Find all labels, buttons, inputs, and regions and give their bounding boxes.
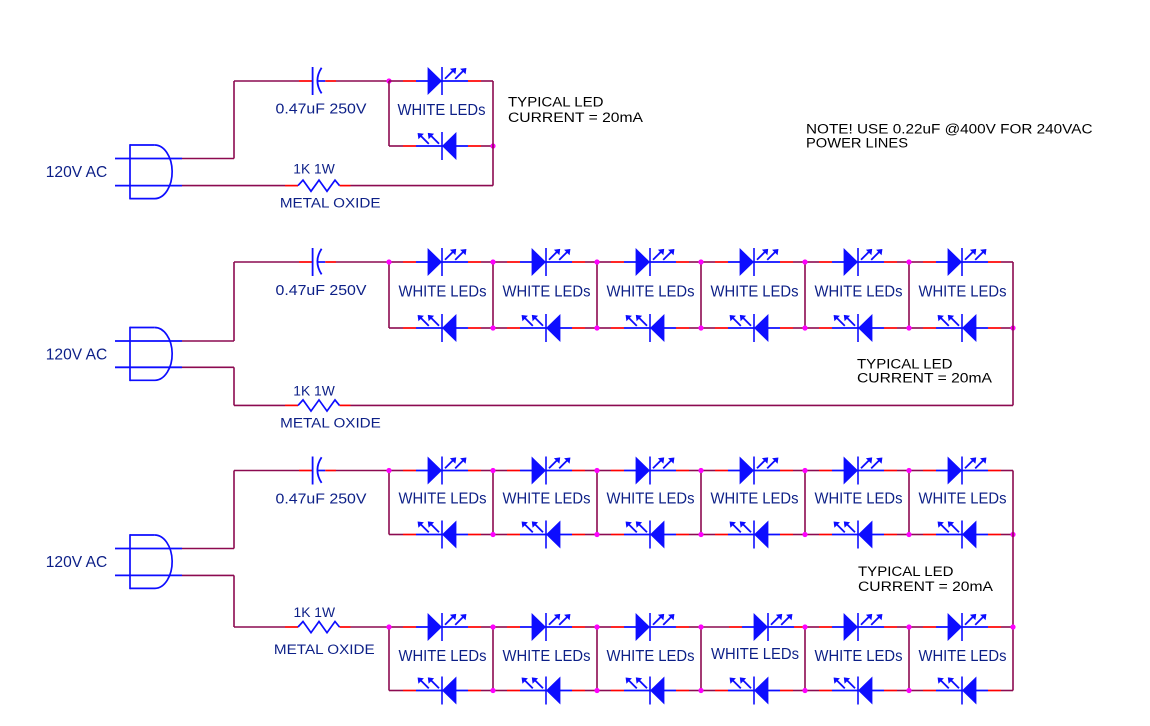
junction c2 bottom (1013,328) bbox=[1010, 325, 1015, 330]
svg-text:WHITE LEDs: WHITE LEDs bbox=[607, 283, 695, 300]
wire plug3 top prong bbox=[182, 548, 234, 550]
wire c3 string2 top rail cell1 right bbox=[481, 626, 493, 628]
junction c3s2 top (701,627) bbox=[698, 624, 703, 629]
wire vertical up bbox=[233, 262, 235, 341]
wire c3 string2 cell4 left edge bbox=[700, 627, 702, 691]
LED string2 bottom D4 bbox=[715, 314, 793, 342]
wire plug1 top prong to corner bbox=[182, 158, 234, 160]
svg-text:POWER LINES: POWER LINES bbox=[806, 136, 908, 151]
wire resistor to string 2 bbox=[351, 626, 390, 628]
wire capacitor to string 1 bbox=[336, 470, 389, 472]
wire c3 string1 top rail cell4 left bbox=[701, 470, 715, 472]
svg-text:120V AC: 120V AC bbox=[46, 554, 108, 571]
junction c3s2 bottom (909,690.5) bbox=[906, 688, 911, 693]
wire c2 top rail cell2 left bbox=[493, 261, 507, 263]
svg-text:TYPICAL LED: TYPICAL LED bbox=[857, 356, 953, 371]
LED string3b bottom D2 bbox=[507, 677, 585, 705]
wire vertical down bbox=[233, 367, 235, 405]
svg-text:WHITE LEDs: WHITE LEDs bbox=[399, 491, 487, 508]
wire c3 string2 top rail cell5 right bbox=[897, 626, 909, 628]
wire c2 bottom rail cell4 right bbox=[793, 327, 805, 329]
wire c3 string1 top rail cell1 right bbox=[481, 470, 493, 472]
junction c2 bottom (805,328) bbox=[802, 325, 807, 330]
wire c2 top rail cell4 right bbox=[793, 261, 805, 263]
junction c3s1 top (493,470.5) bbox=[490, 468, 495, 473]
wire to capacitor C2a bbox=[234, 261, 299, 263]
wire c3 string1 bottom rail cell1 right bbox=[481, 534, 493, 536]
junction c2 bottom (597,328) bbox=[594, 325, 599, 330]
AC plug P1 (120V AC) bbox=[115, 144, 182, 199]
junction (493,146) bbox=[490, 143, 495, 148]
wire c2 top rail cell6 right bbox=[1001, 261, 1013, 263]
wire c2 cell3 left edge bbox=[596, 262, 598, 328]
wire c3 string2 bottom rail cell5 right bbox=[897, 690, 909, 692]
junction c3s1 bottom (701,534.5) bbox=[698, 532, 703, 537]
wire c2 bottom rail cell1 right bbox=[481, 327, 493, 329]
wire c3 string2 bottom rail cell6 left bbox=[909, 690, 923, 692]
wire cell left edge bbox=[388, 81, 390, 146]
LED string2 top D6 bbox=[923, 248, 1001, 276]
wire c2 cell6 left edge bbox=[908, 262, 910, 328]
LED string3a top D4 bbox=[715, 457, 793, 485]
wire to resistor R2 bbox=[234, 404, 285, 406]
svg-text:WHITE LEDs: WHITE LEDs bbox=[815, 491, 903, 508]
svg-text:WHITE LEDs: WHITE LEDs bbox=[919, 283, 1007, 300]
junction c3s1 top (909,470.5) bbox=[906, 468, 911, 473]
wire c3 string1 bottom rail cell1 left bbox=[389, 534, 403, 536]
LED string3b top D3 bbox=[611, 613, 689, 641]
wire c3 string1 cell5 left edge bbox=[804, 471, 806, 535]
wire c1 bottom rail left bbox=[389, 145, 403, 147]
wire c3 string2 bottom rail cell2 left bbox=[493, 690, 507, 692]
wire vertical up to cap rail bbox=[233, 81, 235, 159]
svg-text:NOTE! USE 0.22uF @400V FOR 240: NOTE! USE 0.22uF @400V FOR 240VAC bbox=[806, 122, 1093, 137]
wire c3 string2 cell1 left edge bbox=[388, 627, 390, 691]
LED string3b top D4 bbox=[729, 613, 807, 641]
wire c3 string1 cell1 left edge bbox=[388, 471, 390, 535]
junction c2 top (493,262) bbox=[490, 259, 495, 264]
LED string2 bottom D1 bbox=[403, 314, 481, 342]
LED string3a top D5 bbox=[819, 457, 897, 485]
LED D2 (white, left) bbox=[403, 132, 481, 160]
wire c3 string2 top rail cell6 left bbox=[909, 626, 923, 628]
wire c3 string2 top rail cell4 right bbox=[805, 626, 807, 628]
wire c1 bottom rail right bbox=[481, 145, 493, 147]
wire c3 string1 top rail cell2 right bbox=[585, 470, 597, 472]
AC plug P3 (120V AC) bbox=[115, 534, 182, 589]
wire c3 string2 top rail cell6 right bbox=[1001, 626, 1013, 628]
svg-text:METAL OXIDE: METAL OXIDE bbox=[280, 415, 381, 431]
wire c2 top rail cell5 left bbox=[805, 261, 819, 263]
wire capacitor to LED cell bbox=[336, 80, 389, 82]
LED string2 top D1 bbox=[403, 248, 481, 276]
wire c3 string2 bottom rail cell4 right bbox=[793, 690, 805, 692]
wire c3 string1 bottom rail cell6 right bbox=[1001, 534, 1013, 536]
wire c2 bottom rail cell3 left bbox=[597, 327, 611, 329]
wire c2 cell1 left edge bbox=[388, 262, 390, 328]
wire c3 string1 bottom rail cell6 left bbox=[909, 534, 923, 536]
LED string2 bottom D5 bbox=[819, 314, 897, 342]
wire c3 string1 bottom rail cell4 left bbox=[701, 534, 715, 536]
svg-text:CURRENT = 20mA: CURRENT = 20mA bbox=[858, 579, 993, 594]
svg-text:WHITE LEDs: WHITE LEDs bbox=[607, 648, 695, 665]
wire plug1 bottom prong to resistor bbox=[182, 185, 285, 187]
wire plug2 bottom prong bbox=[182, 366, 234, 368]
wire c2 bottom rail cell1 left bbox=[389, 327, 403, 329]
wire c2 top rail cell3 left bbox=[597, 261, 611, 263]
LED string3a top D3 bbox=[611, 457, 689, 485]
wire capacitor to first cell bbox=[336, 261, 389, 263]
wire c3 string1 top rail cell5 right bbox=[897, 470, 909, 472]
svg-text:WHITE LEDs: WHITE LEDs bbox=[815, 648, 903, 665]
svg-text:WHITE LEDs: WHITE LEDs bbox=[503, 648, 591, 665]
junction c2 top (805,262) bbox=[802, 259, 807, 264]
svg-text:WHITE LEDs: WHITE LEDs bbox=[815, 283, 903, 300]
wire c3 string1 top rail cell5 left bbox=[805, 470, 819, 472]
wire c3 string2 bottom rail cell6 right bbox=[1001, 690, 1013, 692]
wire resistor to right edge bbox=[351, 404, 1014, 406]
LED string3a bottom D2 bbox=[507, 521, 585, 549]
svg-text:1K 1W: 1K 1W bbox=[293, 382, 335, 398]
resistor R3 1K 1W metal oxide bbox=[285, 622, 351, 633]
svg-text:WHITE LEDs: WHITE LEDs bbox=[607, 491, 695, 508]
LED string2 bottom D6 bbox=[923, 314, 1001, 342]
wire c3 string1 cell6 left edge bbox=[908, 471, 910, 535]
junction c3s2 bottom (597,690.5) bbox=[594, 688, 599, 693]
wire c3 string1 top rail cell2 left bbox=[493, 470, 507, 472]
wire to resistor R3 bbox=[234, 626, 285, 628]
LED string3a top D2 bbox=[507, 457, 585, 485]
junction c3s2 bottom (493,690.5) bbox=[490, 688, 495, 693]
wire c3 string2 bottom rail cell1 left bbox=[389, 690, 403, 692]
LED string2 top D2 bbox=[507, 248, 585, 276]
LED string2 top D3 bbox=[611, 248, 689, 276]
wire c3 string2 top rail cell5 left bbox=[805, 626, 819, 628]
junction c3s2 bottom (805,690.5) bbox=[802, 688, 807, 693]
wire c3 string1 bottom rail cell5 left bbox=[805, 534, 819, 536]
junction c2 top (389,262) bbox=[386, 259, 391, 264]
junction c2 bottom (493,328) bbox=[490, 325, 495, 330]
LED string3b bottom D4 bbox=[715, 677, 793, 705]
wire c3 string2 top rail cell2 right bbox=[585, 626, 597, 628]
wire c2 bottom rail cell6 left bbox=[909, 327, 923, 329]
junction c3s1 bottom (597,534.5) bbox=[594, 532, 599, 537]
AC plug P2 (120V AC) bbox=[115, 327, 182, 381]
wire c2 cell5 left edge bbox=[804, 262, 806, 328]
wire c3 string1 bottom rail cell3 right bbox=[689, 534, 701, 536]
wire c2 top rail cell1 right bbox=[481, 261, 493, 263]
wire c3 string1 top rail cell4 right bbox=[793, 470, 805, 472]
wire plug3 bottom prong bbox=[182, 574, 234, 576]
LED string3b top D6 bbox=[923, 613, 1001, 641]
wire c3 string1 bottom rail cell5 right bbox=[897, 534, 909, 536]
svg-text:WHITE LEDs: WHITE LEDs bbox=[399, 648, 487, 665]
LED string3b top D1 bbox=[403, 613, 481, 641]
wire cell right edge down bbox=[492, 81, 494, 186]
junction c3s1 bottom right (1013,534.5) bbox=[1010, 532, 1015, 537]
wire c2 cell2 left edge bbox=[492, 262, 494, 328]
LED string3a top D6 bbox=[923, 457, 1001, 485]
svg-text:WHITE LEDs: WHITE LEDs bbox=[503, 283, 591, 300]
LED string3a bottom D3 bbox=[611, 521, 689, 549]
LED string3b top D5 bbox=[819, 613, 897, 641]
LED string3b bottom D6 bbox=[923, 677, 1001, 705]
wire c3 string2 cell2 left edge bbox=[492, 627, 494, 691]
wire c3 string1 bottom rail cell4 right bbox=[793, 534, 805, 536]
junction c2 top (909,262) bbox=[906, 259, 911, 264]
svg-text:WHITE LEDs: WHITE LEDs bbox=[919, 648, 1007, 665]
LED string3b bottom D3 bbox=[611, 677, 689, 705]
junction c3s1 top (389,470.5) bbox=[386, 468, 391, 473]
wire c2 bottom rail cell2 left bbox=[493, 327, 507, 329]
wire c3 string1 top rail cell3 right bbox=[689, 470, 701, 472]
wire vertical up bbox=[233, 471, 235, 549]
wire c2 top rail cell4 left bbox=[701, 261, 715, 263]
wire c3 string1 top rail cell6 right bbox=[1001, 470, 1013, 472]
LED string2 top D4 bbox=[715, 248, 793, 276]
svg-text:1K 1W: 1K 1W bbox=[293, 161, 335, 177]
wire c2 bottom rail cell3 right bbox=[689, 327, 701, 329]
junction c3s1 top (701,470.5) bbox=[698, 468, 703, 473]
wire c3 string1 top rail cell6 left bbox=[909, 470, 923, 472]
wire c2 top rail cell5 right bbox=[897, 261, 909, 263]
junction c3s2 bottom (701,690.5) bbox=[698, 688, 703, 693]
wire c3 string2 top rail cell2 left bbox=[493, 626, 507, 628]
wire c3 right edge (string1 to string2) bbox=[1012, 471, 1014, 691]
junction c3s2 top (493,627) bbox=[490, 624, 495, 629]
wire c3 string1 bottom rail cell3 left bbox=[597, 534, 611, 536]
junction c2 top (701,262) bbox=[698, 259, 703, 264]
wire c2 top rail cell1 left bbox=[389, 261, 403, 263]
svg-text:WHITE LEDs: WHITE LEDs bbox=[711, 491, 799, 508]
wire c2 top rail cell3 right bbox=[689, 261, 701, 263]
wire c3 string2 bottom rail cell5 left bbox=[805, 690, 819, 692]
svg-text:WHITE LEDs: WHITE LEDs bbox=[503, 491, 591, 508]
junction c3s2 top (805,627) bbox=[802, 624, 807, 629]
junction c2 bottom (701,328) bbox=[698, 325, 703, 330]
LED string3b bottom D1 bbox=[403, 677, 481, 705]
junction c3s2 top (597,627) bbox=[594, 624, 599, 629]
junction c3s2 top (389,627) bbox=[386, 624, 391, 629]
wire c3 string2 top rail cell1 left bbox=[389, 626, 403, 628]
wire c3 string1 top rail cell1 left bbox=[389, 470, 403, 472]
wire c3 string1 bottom rail cell2 left bbox=[493, 534, 507, 536]
wire c3 string2 bottom rail cell3 left bbox=[597, 690, 611, 692]
wire c3 string2 top rail cell3 right bbox=[689, 626, 701, 628]
wire c3 string2 bottom rail cell3 right bbox=[689, 690, 701, 692]
LED string3a bottom D4 bbox=[715, 521, 793, 549]
junction c3s1 top (597,470.5) bbox=[594, 468, 599, 473]
wire to capacitor C1a bbox=[234, 80, 299, 82]
svg-text:0.47uF 250V: 0.47uF 250V bbox=[276, 101, 367, 118]
wire c3 string1 cell3 left edge bbox=[596, 471, 598, 535]
wire c2 bottom rail cell4 left bbox=[701, 327, 715, 329]
LED string2 top D5 bbox=[819, 248, 897, 276]
wire c3 string2 top rail cell4 left bbox=[701, 626, 729, 628]
junction (389,81) bbox=[386, 78, 391, 83]
wire c3 string2 cell6 left edge bbox=[908, 627, 910, 691]
svg-text:WHITE LEDs: WHITE LEDs bbox=[711, 283, 799, 300]
svg-text:0.47uF 250V: 0.47uF 250V bbox=[276, 282, 367, 299]
wire c3 string1 cell4 left edge bbox=[700, 471, 702, 535]
wire vertical down bbox=[233, 575, 235, 627]
wire c3 string1 top rail cell3 left bbox=[597, 470, 611, 472]
wire c2 bottom rail cell5 left bbox=[805, 327, 819, 329]
wire c1 top rail right bbox=[481, 80, 493, 82]
wire c2 top rail cell6 left bbox=[909, 261, 923, 263]
wire c3 string1 bottom rail cell2 right bbox=[585, 534, 597, 536]
wire c1 top rail left bbox=[389, 80, 403, 82]
wire c2 bottom rail cell2 right bbox=[585, 327, 597, 329]
junction c2 top (597,262) bbox=[594, 259, 599, 264]
wire to capacitor C3a bbox=[234, 470, 299, 472]
wire resistor to cell right edge bbox=[351, 185, 494, 187]
svg-text:WHITE LEDs: WHITE LEDs bbox=[399, 283, 487, 300]
wire c3 string2 bottom rail cell4 left bbox=[701, 690, 715, 692]
svg-text:TYPICAL LED: TYPICAL LED bbox=[508, 95, 604, 110]
svg-text:METAL OXIDE: METAL OXIDE bbox=[274, 642, 375, 658]
wire plug2 top prong bbox=[182, 340, 234, 342]
svg-text:WHITE LEDs: WHITE LEDs bbox=[919, 491, 1007, 508]
wire c2 bottom rail cell6 right bbox=[1001, 327, 1013, 329]
LED string3a top D1 bbox=[403, 457, 481, 485]
svg-text:WHITE LEDs: WHITE LEDs bbox=[398, 102, 486, 119]
wire c2 cell4 left edge bbox=[700, 262, 702, 328]
svg-text:CURRENT = 20mA: CURRENT = 20mA bbox=[857, 371, 992, 386]
resistor R2 1K 1W metal oxide bbox=[285, 400, 351, 411]
resistor R1 1K 1W metal oxide bbox=[285, 180, 351, 191]
svg-text:CURRENT = 20mA: CURRENT = 20mA bbox=[508, 110, 643, 125]
wire c3 string2 cell3 left edge bbox=[596, 627, 598, 691]
svg-text:WHITE LEDs: WHITE LEDs bbox=[711, 646, 799, 663]
LED string3a bottom D6 bbox=[923, 521, 1001, 549]
junction c3s2 top (1013,627) bbox=[1010, 624, 1015, 629]
junction c3s2 top (909,627) bbox=[906, 624, 911, 629]
LED string2 bottom D2 bbox=[507, 314, 585, 342]
LED string2 bottom D3 bbox=[611, 314, 689, 342]
wire c2 top rail cell2 right bbox=[585, 261, 597, 263]
svg-text:120V AC: 120V AC bbox=[46, 346, 108, 363]
LED D1 (white, right) bbox=[403, 67, 481, 95]
svg-text:METAL OXIDE: METAL OXIDE bbox=[280, 196, 381, 212]
wire c3 string2 cell5 left edge bbox=[804, 627, 806, 691]
capacitor 0.47uF 250V (circuit 1) bbox=[299, 67, 336, 95]
wire c3 string2 bottom rail cell1 right bbox=[481, 690, 493, 692]
svg-text:120V AC: 120V AC bbox=[46, 164, 108, 181]
junction c3s1 bottom (909,534.5) bbox=[906, 532, 911, 537]
junction c3s1 bottom (493,534.5) bbox=[490, 532, 495, 537]
junction c3s1 top (805,470.5) bbox=[802, 468, 807, 473]
LED string3b bottom D5 bbox=[819, 677, 897, 705]
capacitor 0.47uF 250V (circuit 3) bbox=[299, 457, 336, 485]
svg-text:1K 1W: 1K 1W bbox=[294, 604, 336, 620]
LED string3a bottom D1 bbox=[403, 521, 481, 549]
wire c3 string2 top rail cell3 left bbox=[597, 626, 611, 628]
junction c3s1 bottom (805,534.5) bbox=[802, 532, 807, 537]
LED string3a bottom D5 bbox=[819, 521, 897, 549]
wire c2 bottom rail cell5 right bbox=[897, 327, 909, 329]
svg-text:TYPICAL LED: TYPICAL LED bbox=[858, 564, 954, 579]
wire c3 string2 bottom rail cell2 right bbox=[585, 690, 597, 692]
junction c2 bottom (909,328) bbox=[906, 325, 911, 330]
wire c3 string1 cell2 left edge bbox=[492, 471, 494, 535]
capacitor 0.47uF 250V (circuit 2) bbox=[299, 248, 336, 276]
LED string3b top D2 bbox=[507, 613, 585, 641]
wire c2 right edge down bbox=[1012, 262, 1014, 405]
svg-text:0.47uF 250V: 0.47uF 250V bbox=[276, 491, 367, 508]
